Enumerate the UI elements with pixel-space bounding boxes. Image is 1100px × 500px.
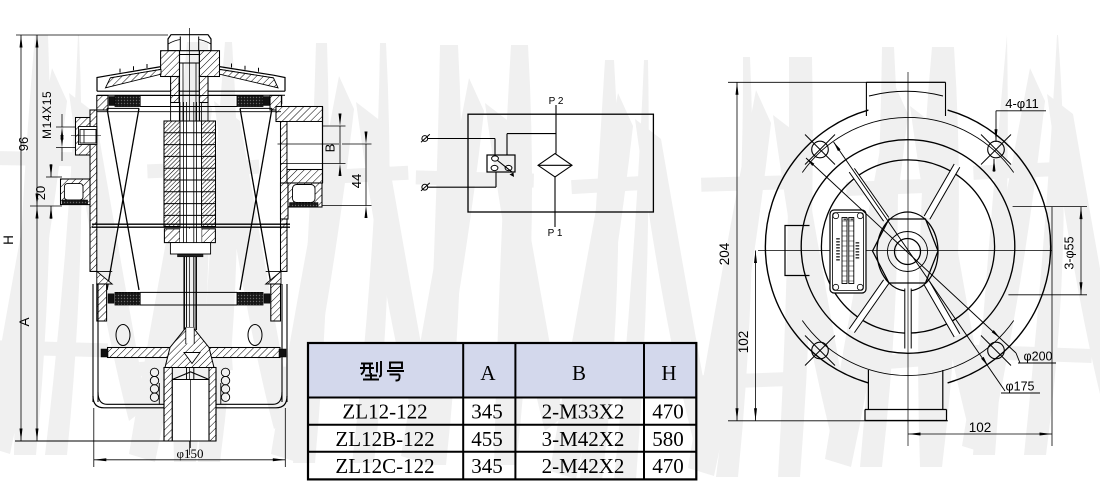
svg-text:ZL12C-122: ZL12C-122 bbox=[335, 454, 434, 478]
svg-text:ZL12B-122: ZL12B-122 bbox=[335, 427, 434, 451]
svg-text:470: 470 bbox=[652, 400, 684, 424]
svg-text:φ175: φ175 bbox=[1006, 380, 1035, 394]
svg-text:3-φ55: 3-φ55 bbox=[1063, 236, 1077, 269]
svg-text:345: 345 bbox=[471, 400, 503, 424]
svg-text:455: 455 bbox=[471, 427, 503, 451]
svg-text:345: 345 bbox=[471, 454, 503, 478]
svg-text:φ150: φ150 bbox=[176, 446, 203, 461]
svg-text:3-M42X2: 3-M42X2 bbox=[542, 427, 625, 451]
svg-text:580: 580 bbox=[652, 427, 684, 451]
svg-text:102: 102 bbox=[736, 331, 751, 354]
svg-text:96: 96 bbox=[16, 137, 31, 151]
svg-text:P 1: P 1 bbox=[548, 228, 563, 239]
svg-text:φ200: φ200 bbox=[1024, 350, 1053, 364]
svg-text:20: 20 bbox=[33, 186, 48, 200]
svg-text:H: H bbox=[661, 361, 676, 385]
svg-text:B: B bbox=[323, 144, 338, 153]
svg-text:470: 470 bbox=[652, 454, 684, 478]
svg-text:2-M42X2: 2-M42X2 bbox=[542, 454, 625, 478]
svg-text:H: H bbox=[1, 235, 16, 245]
svg-text:44: 44 bbox=[349, 174, 364, 188]
svg-text:A: A bbox=[17, 317, 32, 326]
svg-text:4-φ11: 4-φ11 bbox=[1005, 96, 1038, 111]
svg-text:2-M33X2: 2-M33X2 bbox=[542, 400, 625, 424]
svg-text:ZL12-122: ZL12-122 bbox=[342, 400, 427, 424]
svg-text:A: A bbox=[480, 361, 496, 385]
svg-text:204: 204 bbox=[717, 242, 732, 265]
svg-text:B: B bbox=[572, 361, 586, 385]
svg-text:M14X15: M14X15 bbox=[40, 91, 54, 139]
svg-text:102: 102 bbox=[969, 420, 992, 435]
